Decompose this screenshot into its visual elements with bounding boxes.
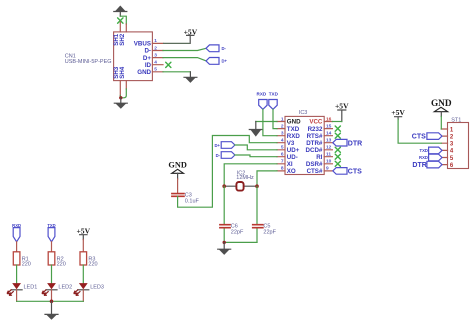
svg-text:R232: R232 (308, 126, 323, 133)
svg-text:14: 14 (326, 131, 332, 137)
svg-text:15: 15 (326, 123, 332, 129)
svg-text:VBUS: VBUS (134, 41, 151, 48)
svg-text:SH4: SH4 (119, 66, 126, 79)
svg-text:ST1: ST1 (451, 117, 461, 123)
svg-text:DTR: DTR (348, 140, 362, 147)
svg-text:TXD: TXD (269, 91, 279, 96)
svg-text:+5V: +5V (76, 226, 90, 235)
svg-text:1: 1 (281, 116, 284, 122)
svg-text:12: 12 (326, 145, 332, 151)
svg-text:7: 7 (281, 159, 284, 165)
svg-text:D+: D+ (222, 59, 228, 64)
svg-text:GND: GND (137, 69, 151, 76)
svg-text:VCC: VCC (309, 119, 323, 126)
svg-text:2: 2 (281, 123, 284, 129)
svg-text:+5V: +5V (335, 101, 349, 110)
svg-text:D-: D- (144, 48, 151, 55)
svg-text:SH2: SH2 (119, 33, 126, 46)
svg-text:11: 11 (326, 152, 331, 158)
svg-text:RI: RI (316, 154, 322, 161)
svg-text:12MHz: 12MHz (236, 175, 254, 181)
svg-text:10: 10 (326, 159, 332, 165)
svg-text:RXD: RXD (257, 91, 267, 96)
svg-text:GND: GND (168, 160, 186, 169)
svg-text:RXD: RXD (287, 133, 301, 140)
svg-text:220: 220 (22, 262, 31, 268)
svg-text:22pF: 22pF (263, 229, 276, 235)
svg-text:CTS#: CTS# (307, 168, 323, 175)
svg-text:LED1: LED1 (24, 285, 38, 291)
svg-text:CTS: CTS (412, 134, 426, 141)
svg-text:LED2: LED2 (58, 285, 72, 291)
svg-text:22pF: 22pF (231, 229, 244, 235)
svg-text:3: 3 (281, 131, 284, 137)
svg-text:6: 6 (281, 152, 284, 158)
svg-text:XO: XO (287, 168, 296, 175)
svg-text:UD-: UD- (287, 154, 298, 161)
svg-text:9: 9 (326, 166, 329, 172)
svg-text:1: 1 (154, 38, 157, 44)
svg-text:IC3: IC3 (299, 110, 308, 116)
svg-text:220: 220 (57, 262, 66, 268)
svg-text:220: 220 (88, 262, 97, 268)
svg-text:XI: XI (287, 161, 293, 168)
svg-text:13: 13 (326, 138, 332, 144)
svg-text:DTR#: DTR# (306, 140, 323, 147)
svg-text:DSR#: DSR# (306, 161, 323, 168)
svg-text:TXD: TXD (420, 148, 428, 153)
svg-text:V3: V3 (287, 140, 295, 147)
svg-text:8: 8 (281, 166, 284, 172)
svg-text:RTS#: RTS# (307, 133, 323, 140)
svg-text:DTR: DTR (412, 162, 426, 169)
svg-text:ID: ID (145, 62, 152, 69)
svg-text:4: 4 (154, 60, 157, 66)
svg-text:USB-MINI-5P-PEG: USB-MINI-5P-PEG (65, 59, 112, 65)
svg-text:0.1uF: 0.1uF (185, 198, 200, 204)
svg-text:D-: D- (216, 153, 221, 158)
svg-text:16: 16 (326, 116, 332, 122)
svg-text:2: 2 (154, 45, 157, 51)
svg-text:5: 5 (281, 145, 284, 151)
svg-text:3: 3 (154, 52, 157, 58)
svg-text:TXD: TXD (287, 126, 300, 133)
svg-text:LED3: LED3 (90, 285, 104, 291)
svg-text:D+: D+ (215, 143, 221, 148)
svg-text:GND: GND (287, 119, 301, 126)
svg-text:D-: D- (222, 46, 227, 51)
svg-text:RXD: RXD (419, 155, 428, 160)
svg-text:5: 5 (154, 67, 157, 73)
svg-text:CTS: CTS (348, 169, 362, 176)
svg-text:4: 4 (281, 138, 284, 144)
svg-text:+5V: +5V (391, 108, 405, 117)
svg-text:D+: D+ (143, 55, 151, 62)
